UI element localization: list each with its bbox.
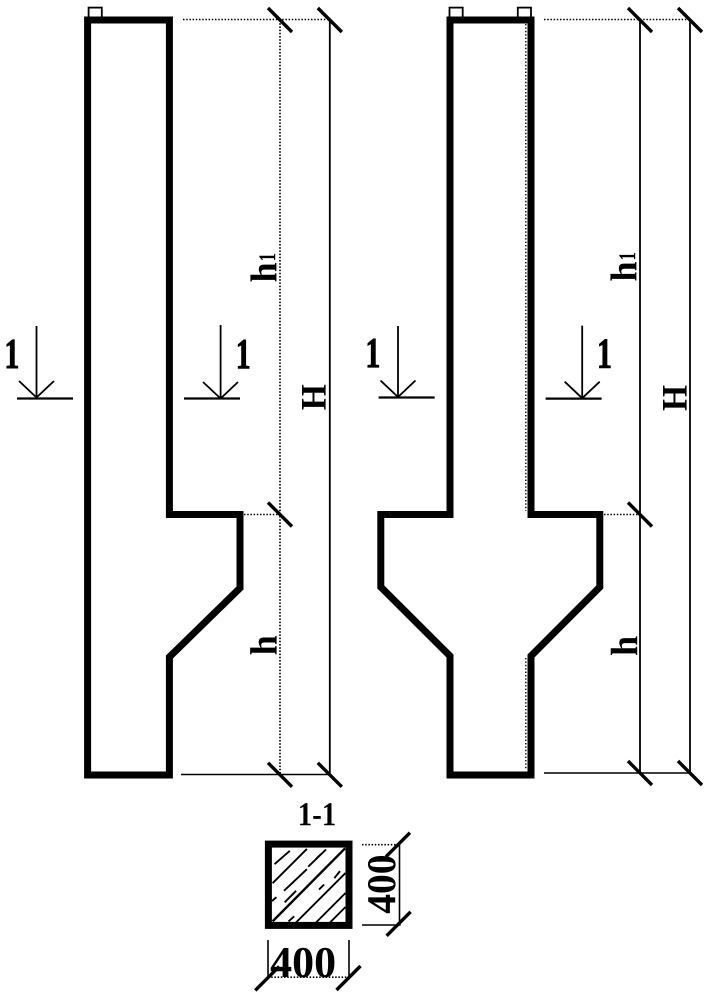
column B hidden edge dotted lower: [525, 658, 527, 770]
label h1 (column B): [610, 253, 636, 281]
column B hidden edge dotted upper: [525, 24, 527, 511]
label h1 (column A): [250, 254, 276, 282]
section title 1-1: [300, 803, 335, 825]
section square outline: [268, 844, 349, 925]
tick H top: [318, 8, 342, 32]
column B lifting tab right: [518, 8, 531, 18]
column B bottom extension line: [544, 772, 690, 774]
tick section h right: [337, 966, 361, 990]
column B step extension line: [604, 514, 640, 516]
section arrow A1: [17, 326, 73, 399]
tick B H bottom: [678, 761, 702, 785]
section vertical dim extension top (dotted): [362, 844, 400, 846]
tick section v bottom: [387, 912, 411, 936]
column A dimension line h1+h (dotted): [279, 20, 281, 775]
section arrow B2: [546, 326, 602, 399]
section horizontal dim extension left: [267, 940, 269, 978]
column A dimension line H: [329, 20, 331, 775]
column A top extension line: [183, 19, 330, 21]
tick section h left: [255, 966, 279, 990]
section vertical dim extension bottom: [362, 924, 401, 926]
tick section v top: [386, 833, 410, 857]
label H (column A): [302, 385, 326, 410]
label 1 (arrow A2): [238, 340, 249, 368]
label 1 (arrow B2): [599, 340, 610, 368]
tick h1 top: [268, 8, 292, 32]
section arrow B1: [379, 326, 435, 398]
concrete hatch lines: [272, 848, 346, 922]
label 1 (arrow A1): [7, 340, 18, 368]
column A outline (stepped column, elevation): [88, 20, 240, 775]
tick B h1 top: [628, 8, 652, 32]
tick B h bottom: [628, 761, 652, 785]
column A lifting tab: [89, 8, 102, 18]
label H (column B): [663, 386, 687, 411]
column B outline (symmetric stepped column): [381, 20, 600, 775]
section horizontal dim line (dotted): [268, 976, 349, 978]
tick B h1 step: [628, 503, 652, 527]
section horizontal dim extension right: [348, 940, 350, 978]
section arrow A2: [184, 325, 240, 399]
column B dimension line h1+h: [639, 20, 641, 773]
label h (column A): [250, 636, 276, 655]
label 1 (arrow B1): [368, 339, 379, 367]
column B top extension line: [544, 19, 690, 21]
label 400 vertical: [368, 856, 396, 913]
label 400 horizontal: [271, 948, 335, 978]
tick B H top: [678, 8, 702, 32]
tick h bottom: [268, 763, 292, 787]
label h (column B): [611, 636, 637, 655]
column B dimension line H: [689, 20, 691, 773]
tick H bottom: [318, 763, 342, 787]
column A bottom extension line: [181, 774, 331, 776]
column B lifting tab left: [450, 8, 463, 18]
tick h1 step: [268, 503, 292, 527]
section vertical dim line: [399, 845, 401, 924]
column A step extension line: [244, 514, 280, 516]
